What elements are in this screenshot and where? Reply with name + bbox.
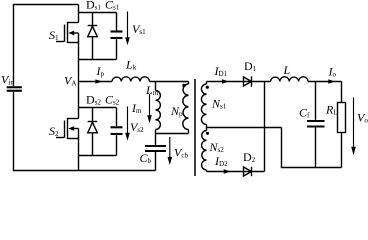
svg-text:L: L (283, 63, 291, 77)
